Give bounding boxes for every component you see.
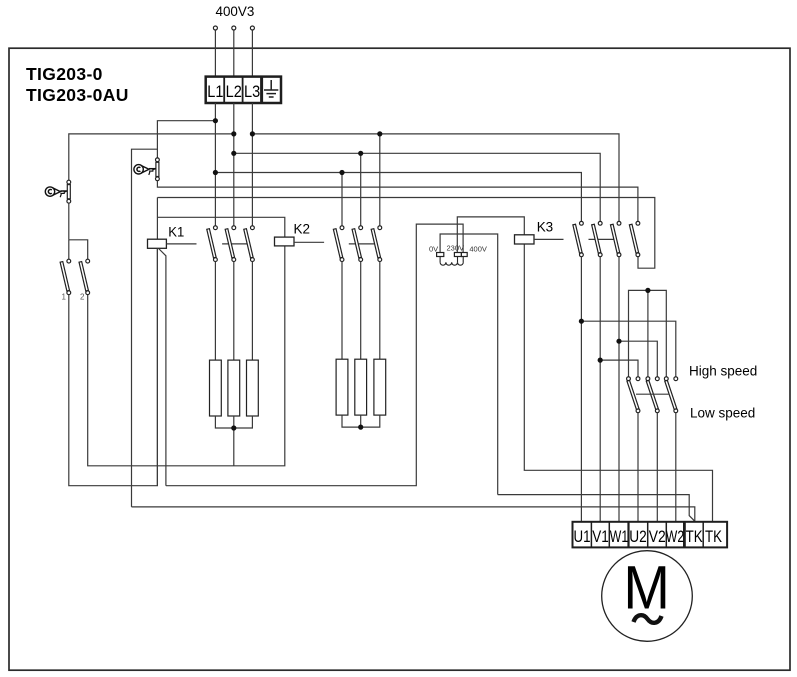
node junction W1 column	[616, 339, 621, 344]
wire K3 pole2 to terminal V1	[599, 257, 601, 522]
svg-text:K2: K2	[294, 221, 311, 237]
contactor K3 coil	[515, 235, 535, 244]
wire K1 coil top drop	[156, 198, 158, 240]
node junction L1 / line E	[213, 170, 218, 175]
wire W1 branch to selector sw2 fixed contact	[619, 341, 657, 377]
svg-text:V1: V1	[592, 527, 609, 546]
wire R2b to star point	[360, 415, 362, 427]
switch pole 1	[60, 259, 71, 294]
svg-text:2: 2	[80, 293, 85, 302]
wire K1 coil bottom lead a	[156, 248, 158, 485]
switch pole 2	[79, 259, 90, 294]
wire K2 pole2 to resistor R2b	[360, 262, 362, 360]
wire K1 pole1 to resistor R1a	[214, 262, 216, 361]
svg-text:L1: L1	[207, 82, 223, 101]
node junction L2 / line G	[231, 151, 236, 156]
wire K1 pole3 to resistor R1c	[251, 262, 253, 361]
svg-text:M: M	[623, 554, 670, 622]
wire K3 coil bottom to terminal TK2	[524, 244, 712, 522]
wire supply drop L2	[233, 30, 235, 76]
wire transformer 400V tap to line A2b to K1 coil lead b	[166, 224, 463, 486]
node shorting bus junction	[645, 288, 650, 293]
svg-text:U1: U1	[574, 527, 591, 546]
transformer T1 tap box 0V	[437, 253, 444, 257]
node supply pin 3	[250, 26, 254, 30]
svg-text:K1: K1	[168, 224, 184, 240]
wire R1 star point to line A1	[233, 428, 235, 466]
wire line A: L1 branch to key switch S2	[157, 121, 215, 158]
motor tilde	[634, 615, 662, 623]
wire K3 pole3 to terminal W1	[618, 257, 620, 522]
contactor K2 contact pole 1	[333, 226, 344, 262]
wire isolator branch to pole 1	[68, 240, 70, 259]
wire L1 column to K1 pole1	[214, 103, 216, 226]
wire K2 pole1 feed from line E	[341, 173, 343, 226]
wire supply drop L1	[214, 30, 216, 76]
wire K2 pole3 feed from line B2	[379, 134, 381, 226]
wire R2 star bus	[342, 415, 380, 427]
svg-text:K3: K3	[537, 219, 554, 235]
wire sw3 common to terminal W2	[675, 413, 677, 522]
key switch S1	[45, 180, 70, 203]
wire K2 coil actuator stub	[294, 241, 324, 243]
transformer T1 tap box 400V	[461, 253, 467, 257]
resistor R1b	[228, 360, 240, 416]
wire K1 coil bottom lead b	[159, 249, 166, 486]
svg-text:L3: L3	[244, 82, 260, 101]
node junction line E / K2 pole1	[339, 170, 344, 175]
node junction V1 column	[598, 358, 603, 363]
contactor K1 coil	[148, 239, 167, 248]
wire switch pole 2 output to K2 coil (A1)	[88, 246, 285, 466]
wire transformer 0V tap riser	[440, 234, 498, 495]
node supply pin 2	[232, 26, 236, 30]
wire isolator branch to pole 2	[69, 240, 88, 259]
motor M1	[602, 551, 693, 642]
resistor R1c	[247, 360, 259, 416]
wire line B: L2 branch left to key switch S1	[69, 134, 234, 180]
contactor K3 contact pole 2	[592, 221, 602, 256]
wire L3 column to K1 pole3	[251, 103, 253, 226]
wire high-speed shorting bus	[629, 290, 667, 376]
ground PE symbol	[264, 80, 278, 97]
node R2 star point	[358, 425, 363, 430]
wire line H: K1 coil top to K3 pole4 output	[157, 198, 654, 269]
wire switch pole 1 output to K1 coil (A2a)	[69, 248, 158, 485]
node supply pin 1	[213, 26, 217, 30]
node junction L1 / line A	[213, 118, 218, 123]
wire key switch S1 to isolator branch	[68, 203, 70, 240]
contactor K3 contact pole 3	[610, 221, 620, 256]
resistor R2b	[355, 359, 367, 415]
contactor K2 contact pole 3	[371, 226, 382, 262]
transformer T1 tap box 230V	[454, 253, 461, 257]
wire R1b to star point	[233, 416, 235, 428]
speed selector switch sw1	[627, 377, 640, 413]
contactor K3 contact pole 4	[629, 221, 639, 256]
wire supply drop L3	[251, 30, 253, 76]
key switch S2	[134, 158, 159, 181]
wire K2 mechanical link	[349, 243, 375, 245]
svg-text:TIG203-0AU: TIG203-0AU	[26, 85, 129, 105]
svg-text:0V: 0V	[429, 244, 438, 253]
node junction line B2 / K2 pole3	[377, 131, 382, 136]
contactor K1 contact pole 3	[244, 226, 255, 262]
speed selector switch sw3	[664, 377, 677, 413]
svg-text:W2: W2	[666, 527, 684, 546]
wire K1 pole2 to resistor R1b	[233, 262, 235, 361]
transformer T1 winding	[440, 257, 463, 266]
wire V1 branch to selector sw1 fixed contact	[600, 360, 638, 377]
wire shorting bus to sw2	[647, 290, 649, 376]
wire line C: key switch S2 output to K3 pole4	[157, 181, 638, 222]
wire sw1 common to terminal U2	[637, 413, 639, 522]
wire U1 branch to selector sw3 fixed contact	[581, 321, 675, 377]
wire L2 column to K1 pole2	[233, 103, 235, 226]
svg-text:TIG203-0: TIG203-0	[26, 64, 103, 84]
wire speed selector mechanical link	[636, 393, 669, 395]
terminal block X0 L1 L2 L3 PE	[206, 77, 281, 103]
svg-text:W1: W1	[610, 527, 628, 546]
contactor K1 contact pole 1	[207, 226, 218, 262]
svg-text:400V3: 400V3	[216, 3, 255, 19]
svg-text:TK: TK	[705, 527, 723, 546]
svg-text:230V: 230V	[447, 244, 465, 253]
speed selector switch sw2	[646, 377, 659, 413]
node junction L3 / line B2	[250, 131, 255, 136]
contactor K2 coil	[275, 237, 295, 246]
wire sw2 common to terminal V2	[656, 413, 658, 522]
contactor K3 contact pole 1	[573, 221, 583, 256]
wire line A3: bottom run to terminal TK1	[132, 507, 695, 522]
wire K1 coil actuator stub	[166, 243, 196, 245]
wire line F: K1 coil top tee to K2 coil top	[157, 217, 284, 237]
svg-text:V2: V2	[649, 527, 666, 546]
node junction U1 column	[579, 319, 584, 324]
wire K2 pole1 to resistor R2a	[341, 262, 343, 360]
contactor K1 contact pole 2	[225, 226, 236, 262]
resistor R2a	[336, 359, 348, 415]
svg-text:TK: TK	[686, 527, 704, 546]
node R1 star point	[231, 425, 236, 430]
wire K3 coil actuator stub	[534, 238, 564, 240]
wire line B2: L3 branch right to K3 pole3	[252, 134, 619, 222]
svg-text:U2: U2	[629, 527, 647, 546]
wire transformer 230V tap riser to K3 coil	[457, 217, 524, 253]
svg-text:1: 1	[62, 293, 67, 302]
wire line G: L2 branch right to K3 pole2	[234, 153, 600, 221]
node junction L2 / line B	[231, 131, 236, 136]
svg-text:L2: L2	[226, 82, 242, 101]
wire line D: tap from key switch S2 feed down left side	[132, 149, 158, 507]
contactor K2 contact pole 2	[352, 226, 363, 262]
wire line E: L1 branch right to K3 pole1	[215, 173, 581, 222]
wire 0V run to terminal TK1	[498, 495, 694, 522]
svg-text:Low speed: Low speed	[690, 406, 755, 421]
wire K2 pole2 feed from line G	[360, 153, 362, 226]
wire K3 mechanical link	[589, 238, 614, 240]
svg-text:400V: 400V	[469, 245, 487, 254]
svg-text:High speed: High speed	[689, 364, 757, 379]
wire R1 star bus	[215, 416, 252, 428]
node junction line G / K2 pole2	[358, 151, 363, 156]
resistor R1a	[210, 360, 222, 416]
terminal strip X1 U1 V1 W1 U2 V2 W2 TK TK	[573, 522, 728, 548]
wire K3 pole1 to terminal U1	[580, 257, 582, 522]
wire K1 mechanical link	[222, 243, 248, 245]
resistor R2c	[374, 359, 386, 415]
wire K2 pole3 to resistor R2c	[379, 262, 381, 360]
